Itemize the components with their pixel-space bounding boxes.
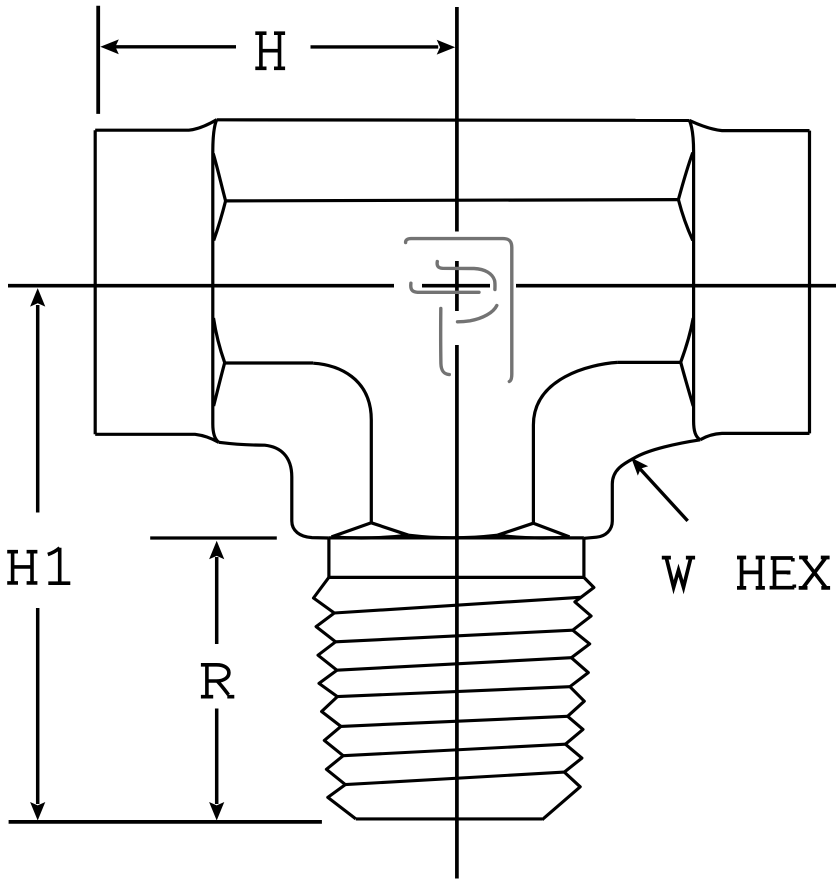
dimension H1 top arrowhead bbox=[30, 288, 45, 307]
branch hex bottom scallop arcs bbox=[332, 535, 570, 538]
right cap right edge bbox=[808, 131, 811, 434]
W HEX leader line bbox=[640, 469, 688, 521]
thread crest line 5 bbox=[341, 716, 568, 726]
thread relief band right edge bbox=[582, 538, 585, 577]
label R glyph bbox=[201, 665, 234, 697]
run bottom face line left bbox=[225, 361, 314, 364]
dimension R bottom arrowhead bbox=[209, 802, 224, 821]
watermark P upper stroke bbox=[437, 262, 495, 290]
branch outer profile left bbox=[219, 442, 329, 538]
hex top silhouette line bbox=[217, 118, 690, 122]
dimension R extension line bbox=[150, 536, 277, 539]
label W HEX glyphs bbox=[662, 558, 830, 588]
thread crest line 4 bbox=[337, 687, 570, 697]
thread crest line 1 bbox=[334, 597, 580, 613]
hex top chamfer face line bbox=[226, 200, 679, 201]
thread bottom line bbox=[356, 817, 542, 820]
watermark lower vertical stroke bbox=[441, 309, 450, 375]
branch hex bottom flare left bbox=[332, 523, 409, 537]
horizontal centerline bbox=[8, 284, 836, 288]
branch inner fillet and corner line left bbox=[313, 363, 371, 523]
watermark P lower bowl bbox=[458, 306, 497, 322]
right hex corner top chamfer arcs bbox=[678, 153, 692, 200]
bottom reference baseline bbox=[9, 820, 322, 824]
run bottom face line right bbox=[617, 361, 680, 364]
right cap bottom line bbox=[700, 433, 809, 439]
left hex corner top chamfer arcs bbox=[213, 154, 225, 201]
thread right zigzag bbox=[542, 577, 594, 819]
watermark underline stroke bbox=[411, 283, 479, 292]
left cap bottom line bbox=[95, 434, 219, 442]
thread relief band bottom bbox=[329, 576, 584, 579]
left hex corner bottom chamfer arcs bbox=[214, 318, 225, 363]
thread relief band top bbox=[329, 536, 584, 539]
dimension H extension tick bbox=[96, 6, 100, 114]
thread left zigzag bbox=[314, 577, 356, 819]
thread crest line 3 bbox=[337, 658, 571, 671]
left cap top line bbox=[95, 120, 217, 131]
thread relief band left edge bbox=[327, 538, 330, 578]
left hex corner line bbox=[213, 120, 219, 443]
dimension H right arrowhead bbox=[437, 40, 456, 55]
W HEX arrowhead bbox=[631, 458, 648, 476]
branch outer profile right bbox=[584, 440, 700, 539]
dimension H line right segment bbox=[311, 45, 439, 48]
dimension H line left segment bbox=[116, 45, 237, 48]
dimension R top arrowhead bbox=[209, 541, 224, 560]
watermark logo box bbox=[406, 239, 512, 382]
thread crest line 6 bbox=[343, 744, 565, 756]
dimension H1 line lower segment bbox=[36, 608, 40, 804]
branch hex bottom flare right bbox=[498, 523, 570, 537]
thread crest line 7 bbox=[345, 772, 564, 785]
dimension H1 line upper segment bbox=[36, 305, 40, 513]
left cap left edge bbox=[94, 130, 97, 434]
dimension R line lower segment bbox=[215, 709, 219, 805]
right hex corner bottom chamfer arcs bbox=[681, 318, 694, 362]
vertical centerline bbox=[455, 7, 459, 879]
label H glyph bbox=[255, 33, 285, 68]
thread crest line 2 bbox=[336, 630, 573, 642]
label H1 glyphs bbox=[7, 548, 70, 583]
right cap top line bbox=[689, 120, 809, 130]
dimension H left arrowhead bbox=[100, 39, 119, 54]
dimension H1 bottom arrowhead bbox=[30, 802, 45, 821]
right hex corner line bbox=[689, 120, 700, 439]
dimension R line upper segment bbox=[215, 557, 219, 644]
branch inner fillet and corner line right bbox=[533, 362, 617, 523]
